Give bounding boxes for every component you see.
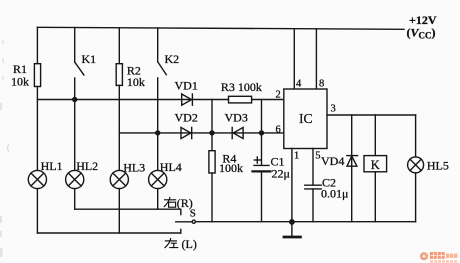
wire HL5 bottom bbox=[415, 173, 417, 222]
wire R2 to HL3 bbox=[118, 85, 120, 170]
svg-text:HL1: HL1 bbox=[41, 159, 63, 173]
relay contact K1 bbox=[75, 62, 84, 75]
resistor R2 bbox=[116, 64, 122, 86]
wire pin2 line right of R3 bbox=[252, 99, 284, 101]
svg-text:0.01μ: 0.01μ bbox=[321, 187, 348, 201]
IC U1 pin8 wire bbox=[315, 29, 317, 89]
wire right contact stub bbox=[180, 209, 182, 214]
svg-text:10k: 10k bbox=[11, 75, 29, 89]
watermark logo bbox=[420, 252, 457, 263]
node junction R4/pin6 bbox=[210, 131, 214, 135]
wire K2 lower bbox=[157, 78, 159, 170]
wire left contact stub bbox=[180, 229, 182, 233]
wire C1 column bbox=[261, 100, 263, 166]
lamp HL4 bbox=[149, 170, 167, 188]
wire relay K column top bbox=[374, 115, 376, 156]
wire R1 to HL1 bbox=[36, 87, 38, 171]
wire R4 column bbox=[211, 100, 213, 151]
wire K1 column top bbox=[74, 28, 76, 63]
svg-text:HL5: HL5 bbox=[427, 158, 449, 172]
wire pin1 to ground bbox=[291, 149, 293, 222]
wire HL2 bottom bbox=[74, 189, 76, 210]
lamp HL1 bbox=[28, 170, 46, 188]
svg-text:3: 3 bbox=[331, 104, 336, 115]
svg-text:22μ: 22μ bbox=[272, 167, 290, 181]
wire R2 column top bbox=[118, 28, 120, 64]
svg-text:5: 5 bbox=[315, 151, 320, 162]
svg-text:HL2: HL2 bbox=[76, 159, 98, 173]
svg-text:100k: 100k bbox=[219, 161, 243, 175]
wire K1 lower bbox=[74, 78, 76, 100]
svg-text:VD4: VD4 bbox=[321, 154, 344, 168]
wire HL5 column top bbox=[415, 115, 417, 157]
diode VD1 bbox=[182, 94, 193, 105]
node junction K1/trigger bbox=[73, 98, 77, 102]
resistor R4 bbox=[209, 151, 215, 173]
capacitor C1 bbox=[253, 157, 271, 171]
op-amp IC U1 bbox=[284, 89, 327, 149]
svg-text:2: 2 bbox=[276, 90, 281, 101]
svg-text:K1: K1 bbox=[82, 52, 97, 66]
svg-text:10k: 10k bbox=[127, 75, 145, 89]
lamp HL5 bbox=[408, 157, 424, 173]
wire threshold line pin6 bbox=[119, 132, 283, 134]
lamp HL3 bbox=[110, 170, 128, 188]
wire HL1 bottom bbox=[36, 189, 38, 233]
svg-text:8: 8 bbox=[319, 78, 324, 89]
svg-text:1: 1 bbox=[294, 151, 299, 162]
wire ground rail bbox=[196, 221, 416, 223]
svg-text:4: 4 bbox=[296, 78, 302, 89]
wire relay K bottom bbox=[374, 172, 376, 222]
resistor R1 bbox=[34, 64, 40, 87]
node junction HL4/pin6 bbox=[156, 131, 160, 135]
relay contact K2 bbox=[158, 62, 167, 75]
node right (R) label bbox=[164, 196, 193, 210]
scan artifacts left edge bbox=[0, 40, 9, 257]
resistor R3 bbox=[229, 96, 252, 103]
svg-text:6: 6 bbox=[276, 124, 281, 135]
wire C2 to ground rail bbox=[312, 189, 314, 222]
svg-text:K2: K2 bbox=[165, 52, 180, 66]
node left (L) label bbox=[165, 237, 197, 251]
node junction C1/pin6 bbox=[260, 131, 264, 135]
diode VD4 bbox=[347, 156, 358, 167]
node junction ground bbox=[290, 220, 294, 224]
svg-text:IC: IC bbox=[299, 111, 313, 126]
svg-text:VD3: VD3 bbox=[225, 110, 248, 124]
svg-text:VD2: VD2 bbox=[175, 110, 198, 124]
wire VD4 column bbox=[351, 115, 353, 222]
diode VD2 bbox=[181, 127, 192, 138]
diode VD3 bbox=[232, 127, 243, 138]
svg-text:HL3: HL3 bbox=[123, 160, 145, 174]
wire trigger line pin2 bbox=[37, 99, 228, 101]
svg-text:(VCC): (VCC) bbox=[407, 26, 436, 41]
wire right-turn contact line bbox=[75, 208, 181, 210]
svg-text:(R): (R) bbox=[177, 196, 193, 210]
wire HL3 bottom bbox=[118, 189, 120, 233]
wire left-turn contact line bbox=[37, 232, 180, 234]
wire pin3 output line bbox=[327, 114, 416, 116]
switch S blade bbox=[176, 221, 192, 223]
svg-text:K: K bbox=[371, 158, 380, 172]
lamp HL2 bbox=[66, 170, 84, 188]
wire K2 column top bbox=[157, 28, 159, 62]
relay coil K bbox=[364, 156, 387, 172]
ground bbox=[284, 222, 300, 237]
wire pin5 column bbox=[312, 149, 314, 186]
svg-text:(L): (L) bbox=[182, 237, 197, 251]
capacitor C2 bbox=[305, 185, 321, 189]
IC U1 pin4 wire bbox=[293, 29, 295, 89]
wire C1 to ground rail bbox=[261, 171, 263, 221]
svg-text:R3 100k: R3 100k bbox=[221, 80, 262, 94]
switch S pole circle bbox=[192, 220, 195, 223]
wire R1 column top bbox=[36, 27, 38, 63]
wire top +12V rail bbox=[37, 27, 404, 29]
wire HL4 bottom bbox=[157, 189, 159, 210]
wire K1 to HL2 bbox=[74, 100, 76, 171]
wire R4 to ground rail bbox=[211, 173, 213, 222]
svg-text:VD1: VD1 bbox=[175, 79, 198, 93]
svg-text:HL4: HL4 bbox=[160, 160, 182, 174]
